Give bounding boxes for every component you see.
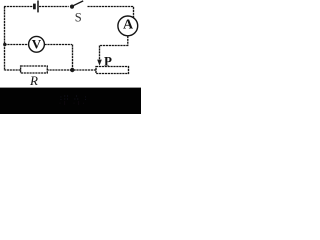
svg-text:P: P xyxy=(104,53,112,68)
wire resistor R to bottom-left corner xyxy=(5,69,21,71)
svg-text:V: V xyxy=(32,36,42,51)
wire top-left horizontal xyxy=(4,6,33,8)
junction node dot voltmeter tap xyxy=(3,43,6,46)
bottom black bar xyxy=(0,88,141,114)
wire ammeter bottom down, left, down to rheostat wiper xyxy=(100,36,129,61)
wire left vertical xyxy=(4,7,6,71)
battery B1 positive plate (long thin) xyxy=(37,1,39,13)
svg-text:·∶ ·∶·: ·∶ ·∶· xyxy=(59,101,88,107)
switch S pivot dot xyxy=(70,5,74,9)
voltmeter U2 circle xyxy=(29,36,45,52)
wire switch to top-right corner and down to ammeter xyxy=(88,7,134,19)
rheostat P body rectangle xyxy=(96,67,129,74)
svg-text:R: R xyxy=(29,73,38,88)
resistor R body rectangle xyxy=(21,66,48,73)
wire voltmeter right and down to junction xyxy=(45,45,73,71)
wire left to voltmeter xyxy=(5,44,29,46)
battery B1 negative plate (short thick) xyxy=(33,4,36,10)
wire battery to switch xyxy=(39,6,69,8)
svg-text:S: S xyxy=(75,11,82,25)
ammeter U1 circle xyxy=(118,16,138,36)
junction node dot xyxy=(70,68,74,72)
switch S lever xyxy=(73,1,83,6)
wire junction to resistor R xyxy=(47,69,72,71)
wiper arrow head onto rheostat P xyxy=(97,60,102,66)
svg-text:A: A xyxy=(123,18,134,33)
wire rheostat left to junction xyxy=(72,69,96,71)
